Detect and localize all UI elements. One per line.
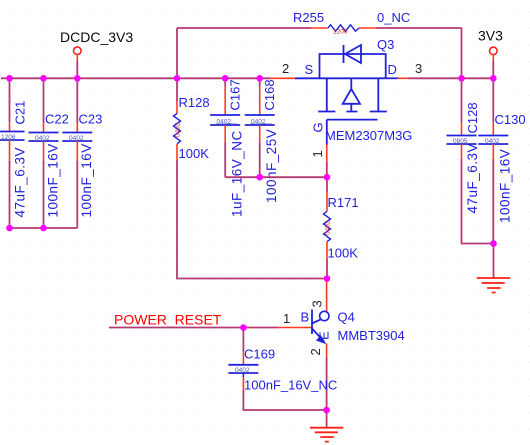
gate line	[327, 119, 378, 121]
svg-text:3V3: 3V3	[478, 28, 503, 44]
svg-text:MMBT3904: MMBT3904	[338, 328, 405, 343]
node: gate/C168	[256, 174, 263, 181]
source stub and bar	[318, 78, 335, 111]
emitter pin	[326, 344, 328, 358]
svg-text:S: S	[305, 62, 314, 77]
capacitor C130	[478, 78, 525, 243]
svg-text:C167: C167	[228, 79, 243, 110]
node: rail/C23/DCDC_3V3	[74, 75, 81, 82]
emitter diagonal with arrow	[312, 329, 324, 342]
node: bottom rail/C22	[40, 225, 47, 232]
node: C128/C130/ground	[490, 240, 497, 247]
svg-text:2: 2	[308, 348, 323, 355]
capacitor C21	[0, 78, 28, 228]
svg-text:C21: C21	[13, 101, 28, 125]
node: R128/R171/Q4 collector	[324, 275, 331, 282]
svg-text:3: 3	[415, 61, 422, 76]
diode	[343, 45, 345, 63]
svg-text:C130: C130	[495, 112, 526, 127]
node: rail/C167	[222, 75, 229, 82]
svg-text:C23: C23	[79, 112, 103, 127]
capacitor C23	[62, 78, 102, 228]
capacitor C128	[447, 78, 494, 243]
svg-text:100nF_16V: 100nF_16V	[46, 143, 61, 217]
svg-text:1: 1	[283, 311, 290, 326]
wire: top rail y=77.5 from x9.5 to x270	[1, 77, 270, 79]
wire: top net y=28 right of R255	[376, 27, 462, 29]
wire: top net y=28 left of R255	[177, 27, 311, 29]
node: C169/Q4 emitter/ground	[323, 407, 330, 414]
svg-text:R171: R171	[328, 195, 359, 210]
svg-text:47uF_6.3V: 47uF_6.3V	[13, 147, 28, 218]
capacitor C22	[29, 78, 69, 228]
svg-text:0402: 0402	[325, 220, 332, 235]
ground (right)	[477, 244, 510, 293]
body diode loop	[320, 54, 386, 78]
capacitor C169	[228, 328, 337, 411]
resistor R128	[174, 78, 210, 161]
collector diagonal	[312, 319, 321, 323]
svg-text:C22: C22	[45, 112, 69, 127]
power port DCDC_3V3	[60, 29, 133, 78]
S-D interior line	[320, 77, 386, 79]
collector pin	[326, 279, 328, 283]
svg-text:R128: R128	[179, 95, 210, 110]
wire: POWER_RESET net	[109, 312, 312, 328]
svg-text:1uF_16V_NC: 1uF_16V_NC	[230, 130, 245, 217]
node: bottom rail/C21	[6, 225, 13, 232]
D pin line	[386, 77, 398, 79]
ground (bottom)	[310, 410, 344, 442]
svg-text:100K: 100K	[179, 146, 210, 161]
wire: gate net horizontal y=175.5	[225, 176, 327, 178]
drain stub and bar	[370, 78, 387, 111]
svg-text:C168: C168	[262, 79, 277, 110]
svg-text:D: D	[388, 62, 397, 77]
node: gate/R171	[324, 174, 331, 181]
svg-text:MEM2307M3G: MEM2307M3G	[325, 128, 412, 143]
wire: riser x177 from top wire to rail	[176, 28, 178, 78]
svg-text:E: E	[317, 331, 332, 340]
svg-text:1: 1	[310, 150, 325, 157]
svg-text:0_NC: 0_NC	[377, 10, 410, 25]
svg-text:2: 2	[282, 61, 289, 76]
svg-text:B: B	[301, 310, 310, 325]
svg-text:C128: C128	[465, 102, 480, 133]
svg-text:1206: 1206	[333, 29, 348, 36]
node: rail/R255 drop	[458, 75, 465, 82]
power port 3V3	[478, 28, 503, 79]
transistor Q3 MEM2307M3G	[270, 37, 422, 177]
base bar	[311, 310, 313, 335]
svg-text:100nF_25V: 100nF_25V	[264, 129, 279, 203]
svg-text:Q4: Q4	[338, 310, 355, 325]
wire: bottom-left rail y=228	[10, 227, 78, 229]
svg-text:47uF_6.3V: 47uF_6.3V	[465, 143, 480, 214]
node: rail/C21	[6, 75, 13, 82]
node: rail/C22	[40, 75, 47, 82]
svg-text:100nF_16V: 100nF_16V	[498, 149, 513, 223]
wire: R128 bottom to junction	[177, 160, 327, 279]
svg-text:100nF_16V: 100nF_16V	[79, 143, 94, 217]
resistor R171	[324, 177, 359, 278]
svg-text:100nF_16V_NC: 100nF_16V_NC	[244, 378, 337, 393]
node: rail/3V3	[490, 75, 497, 82]
substrate arrow	[350, 78, 352, 89]
pin 3 wire	[398, 77, 409, 79]
wire: rail from Q3 drain to right	[409, 77, 494, 79]
svg-text:G: G	[311, 122, 326, 132]
collector circle	[320, 311, 329, 320]
svg-text:R255: R255	[293, 10, 324, 25]
node: rail/C168	[256, 75, 263, 82]
transistor Q4 MMBT3904	[283, 279, 405, 411]
node: rail/R128/R255	[174, 75, 181, 82]
capacitor C168	[245, 78, 279, 203]
node: POWER_RESET/C169	[240, 324, 247, 331]
svg-text:POWER_RESET: POWER_RESET	[114, 312, 222, 328]
svg-text:0402: 0402	[175, 122, 182, 137]
svg-text:100K: 100K	[328, 246, 359, 261]
S pin line	[295, 77, 320, 79]
pin 2 (S) wire	[270, 77, 295, 79]
gate pin	[326, 120, 328, 145]
wire: drop x461.5 from top net to rail	[461, 28, 463, 78]
svg-text:DCDC_3V3: DCDC_3V3	[60, 29, 133, 45]
resistor R255	[293, 10, 410, 36]
capacitor C167	[210, 78, 244, 217]
svg-text:Q3: Q3	[377, 37, 394, 52]
svg-text:3: 3	[310, 300, 325, 307]
svg-text:C169: C169	[244, 347, 275, 362]
